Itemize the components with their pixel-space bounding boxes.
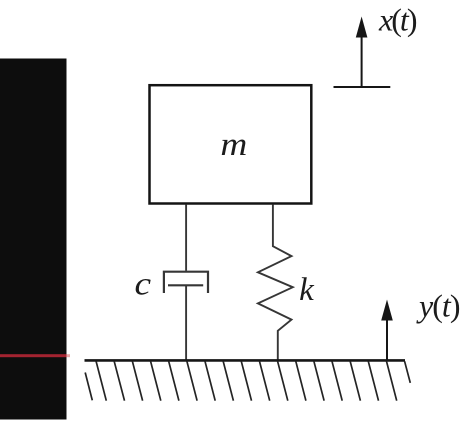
svg-text:c: c xyxy=(135,265,152,302)
svg-text:x(t): x(t) xyxy=(378,2,418,38)
svg-text:k: k xyxy=(299,272,315,308)
svg-text:m: m xyxy=(220,126,247,163)
svg-text:y(t): y(t) xyxy=(416,287,461,323)
